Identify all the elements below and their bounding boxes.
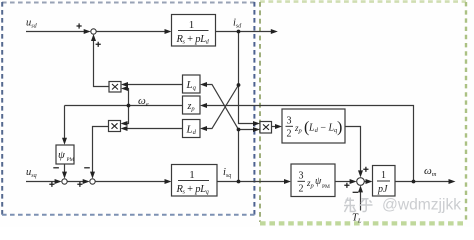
sign: + at S4 top input — [363, 167, 368, 172]
svg-text:ωm: ωm — [424, 165, 437, 178]
arrow: into S3 from left — [83, 179, 90, 184]
dashed box: stator electrical model (blue) — [2, 2, 255, 215]
arrow: down into S4 from B3 — [358, 170, 363, 177]
svg-text:2: 2 — [299, 184, 304, 195]
wire: i_sd vertical down to multiplier X3 upper input — [239, 32, 255, 124]
svg-text:PM: PM — [322, 184, 330, 190]
sign: + at S4 left input — [344, 183, 349, 188]
arrow: omega_m output arrow — [449, 179, 456, 184]
wire: L_d output to multiplier X2 lower input — [126, 128, 183, 130]
svg-text:TL: TL — [352, 213, 362, 225]
svg-text:1: 1 — [189, 19, 195, 31]
svg-text:ψ: ψ — [58, 149, 65, 161]
arrow: into B3 — [275, 124, 282, 129]
wire: i_sq vertical up from bottom line to X3 lower input — [239, 130, 255, 182]
wire: S3 to block B2 — [95, 181, 166, 183]
sign: - at S2 top input — [53, 167, 59, 169]
svg-text:isd: isd — [233, 18, 242, 30]
svg-text:PM: PM — [67, 157, 75, 163]
node: i_sd to L_d diagonal tap — [237, 83, 241, 87]
wire: B2 output i_sq to block B4 — [217, 181, 286, 183]
svg-text:Ld − Lq: Ld − Lq — [308, 123, 338, 135]
arrow: into X2 upper (left-pointing) — [121, 121, 128, 126]
arrowheads — [55, 29, 456, 192]
arrow: down into psi_PM — [62, 138, 67, 145]
wire: omega_m feedback up and left into z_p — [206, 106, 414, 182]
arrow: up into S4 from T_L — [358, 185, 363, 192]
arrow: into X2 lower (left-pointing) — [121, 126, 128, 131]
arrow: into B2 — [165, 179, 172, 184]
svg-text:ωe: ωe — [138, 95, 149, 108]
block zp — [183, 96, 201, 114]
wire: diagonal i_sq to L_q block stub — [206, 85, 239, 130]
wire: omega_e line from psi_PM corner to z_p output — [65, 105, 183, 107]
block psi_PM — [56, 145, 75, 164]
wire: psi_PM output down to summing node S2 — [64, 164, 66, 174]
multiplier X1 — [109, 82, 121, 93]
block B3: 3/2 zp (Ld - Lq) — [282, 109, 345, 143]
sign: + at S3 left input — [77, 182, 82, 187]
watermark: zhihu logo glyphs — [344, 198, 373, 213]
node: omega_e branch — [127, 104, 131, 108]
block B4: 3/2 zp psi_PM — [291, 164, 335, 197]
wire: omega_e branch down into X2 upper input — [126, 106, 129, 124]
svg-text:Rs + pLd: Rs + pLd — [176, 34, 210, 46]
node: i_sd branch — [237, 30, 241, 34]
svg-text:usq: usq — [26, 167, 37, 179]
svg-text:ψ: ψ — [315, 176, 322, 187]
block B1: 1/(Rs+pLd) — [172, 15, 216, 47]
arrow: into B1 — [165, 29, 172, 34]
wire: X1 output up to summing node S1 — [94, 40, 110, 87]
arrow: down into S3 — [90, 172, 95, 179]
svg-text:3: 3 — [287, 116, 292, 127]
arrow: into z_p (left-pointing) — [200, 103, 207, 108]
summing junction S2 — [62, 179, 67, 184]
wire: u_sq input to summing node S2 — [26, 181, 57, 183]
block B5: 1/pJ — [373, 166, 396, 197]
arrow: into X3 lower — [253, 127, 260, 132]
svg-text:isq: isq — [223, 167, 231, 179]
node: omega_m branch — [412, 180, 416, 184]
dashed box bottom edge (green, thick light) — [260, 221, 466, 225]
arrow: into S1 from left — [84, 29, 91, 34]
summing junction S3 — [90, 179, 95, 184]
svg-text:2: 2 — [287, 129, 292, 140]
arrow: up into S1 from X1 — [91, 34, 96, 41]
sign: + at S1 left input — [77, 23, 82, 28]
block Lq — [183, 75, 201, 93]
svg-text:3: 3 — [299, 171, 304, 182]
arrow: into X3 upper — [253, 121, 260, 126]
wire: S4 to block B5 — [364, 181, 367, 183]
wire: omega_e down into psi_PM block — [64, 106, 66, 141]
arrow: into X1 lower (left-pointing) — [121, 86, 128, 91]
wire: B4 output to summing node S4 — [335, 181, 351, 183]
wire: S1 to block B1 — [96, 31, 166, 33]
wire: B5 output omega_m to output arrow — [395, 181, 450, 183]
arrow: down into S2 — [62, 172, 67, 179]
wire: L_q output to multiplier X1 upper input — [127, 84, 183, 86]
summing junction S1 — [91, 29, 96, 34]
multiplier X3 — [260, 122, 272, 134]
wire: omega_e branch up into X1 lower input — [127, 89, 129, 106]
wire: X3 output to block B3 — [272, 126, 277, 128]
svg-text:): ) — [337, 119, 342, 136]
arrow: into L_q (left-pointing) — [200, 82, 207, 87]
arrow: into L_d (left-pointing) — [200, 126, 207, 131]
node: i_sq branch — [237, 180, 241, 184]
sign: - at S3 top input — [84, 167, 90, 169]
dashed box: torque/mechanical model (green) — [260, 2, 466, 224]
arrow: into S4 from B4 — [350, 179, 357, 184]
wire: B3 output right and down to summing node S4 — [345, 127, 361, 172]
svg-text:@wdmzjjkk: @wdmzjjkk — [382, 197, 461, 214]
node: i_sq tap — [237, 128, 241, 132]
wire: u_sd input to summing node S1 — [26, 31, 85, 33]
summing junction S4 — [357, 178, 365, 186]
wire: X2 output down to summing node S3 — [93, 127, 109, 174]
sign: + at S2 left input — [49, 182, 54, 187]
wire: B1 output to i_sd arrow (crosses dashed borders) — [216, 31, 272, 33]
sign: - at S4 bottom input — [353, 191, 359, 193]
multiplier X2 — [109, 121, 121, 132]
wire: S2 to S3 — [67, 181, 84, 183]
sign: + at S1 bottom input — [96, 42, 101, 47]
svg-text:1: 1 — [381, 170, 386, 181]
svg-text:usd: usd — [26, 18, 38, 30]
svg-text:pJ: pJ — [377, 184, 388, 195]
arrow: into X1 upper (left-pointing) — [121, 82, 128, 87]
svg-text:Rs + pLq: Rs + pLq — [176, 184, 209, 196]
arrow: into B4 — [284, 179, 291, 184]
arrow: into B5 — [366, 179, 373, 184]
wire: T_L input up into S4 — [360, 191, 362, 211]
wire: diagonal i_sd to L_d block stub — [206, 85, 239, 129]
arrow: i_sd output arrow — [271, 29, 278, 34]
svg-text:1: 1 — [189, 169, 195, 181]
arrow: into S2 from left — [55, 179, 62, 184]
block Ld — [183, 120, 201, 138]
block B2: 1/(Rs+pLq) — [172, 165, 218, 197]
